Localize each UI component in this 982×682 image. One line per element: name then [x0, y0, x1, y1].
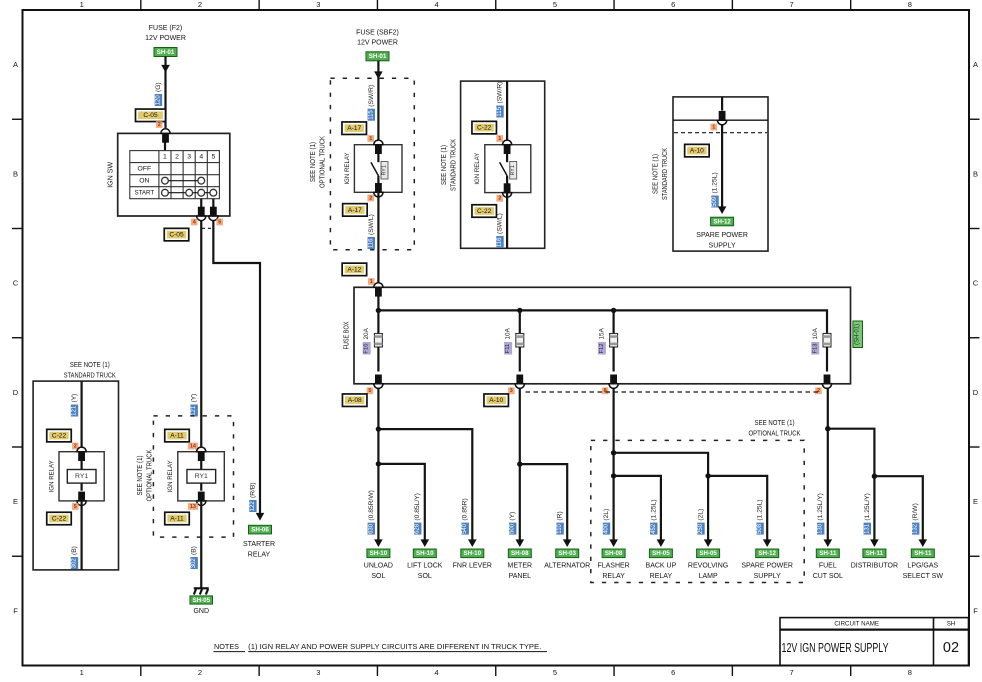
svg-text:15A: 15A	[598, 327, 605, 339]
svg-text:302: 302	[72, 558, 78, 569]
svg-text:3: 3	[316, 668, 320, 677]
fuse box internal bus wire	[377, 287, 379, 310]
svg-text:SPARE POWER: SPARE POWER	[741, 563, 793, 570]
wire from fuse F10 to unload sol	[377, 388, 379, 542]
svg-text:SEE NOTE (1): SEE NOTE (1)	[70, 362, 110, 369]
wire label 452 (1.25L)	[650, 499, 657, 534]
svg-text:RELAY: RELAY	[650, 573, 673, 580]
standard truck enclosure (middle)	[461, 81, 545, 248]
svg-text:F: F	[973, 606, 978, 615]
svg-text:540: 540	[462, 523, 468, 534]
arrow to ALTERNATOR	[563, 539, 572, 547]
title block	[780, 618, 969, 666]
svg-text:12V POWER: 12V POWER	[145, 35, 186, 42]
svg-text:CIRCUIT NAME: CIRCUIT NAME	[834, 620, 879, 627]
wire number 115 (SW/R) standard	[496, 82, 503, 118]
wire number 116 (SW/L)	[368, 214, 375, 249]
svg-text:2: 2	[198, 0, 202, 9]
destination tag SH-12	[711, 217, 734, 226]
arrowhead on SBF2 feed wire	[374, 71, 383, 79]
sheet tag SH-01 (SBF2 feed)	[366, 52, 389, 61]
svg-text:UNLOAD: UNLOAD	[364, 563, 393, 570]
svg-text:GND: GND	[193, 608, 209, 615]
svg-text:F12: F12	[599, 344, 605, 354]
bus junction at F12	[611, 308, 616, 313]
svg-text:2: 2	[369, 195, 372, 201]
pin number 2 left relay top	[72, 443, 79, 450]
svg-text:1: 1	[80, 0, 84, 9]
svg-text:C: C	[13, 279, 19, 288]
wire label 132 (R/W)	[912, 503, 919, 534]
svg-text:SOL: SOL	[371, 573, 385, 580]
svg-text:(SW/R): (SW/R)	[497, 82, 504, 104]
svg-text:SH: SH	[947, 620, 956, 627]
ON row contacts 1-4	[165, 180, 201, 182]
svg-text:SH-12: SH-12	[713, 218, 731, 225]
pin number 2 at IGN SW input	[156, 121, 163, 128]
wire 115 (SW/R) inside standard enclosure	[506, 81, 508, 145]
pin 1 at IGN SW bottom left	[197, 207, 206, 221]
destination tag SH-05	[649, 549, 672, 558]
branch junction to alternator	[517, 461, 522, 466]
svg-text:4: 4	[193, 219, 196, 225]
wire label 500 (Y)	[509, 512, 516, 535]
arrow to DISTRIBUTOR	[870, 539, 879, 547]
pin number at bottom right pin	[216, 219, 223, 226]
svg-text:STARTER: STARTER	[243, 541, 275, 548]
svg-text:IGN SW: IGN SW	[108, 161, 115, 187]
connector label C-22 lower middle	[472, 205, 497, 218]
svg-text:(1.25L/Y): (1.25L/Y)	[817, 493, 824, 521]
sheet tag (SH-01) at fuse box right	[853, 321, 863, 348]
svg-text:(Y): (Y)	[509, 512, 516, 521]
pin 5 at IGN SW bottom right	[209, 207, 218, 221]
svg-text:RY1: RY1	[382, 165, 388, 175]
wire label 250 (2L)	[697, 509, 704, 535]
wire from fuse F13 to fuel cut sol	[827, 388, 829, 542]
pin number 1 middle relay top	[367, 135, 374, 142]
wire branch to revolving lamp	[614, 453, 709, 541]
pin number at fuse box output	[815, 387, 822, 394]
svg-text:7: 7	[789, 0, 793, 9]
pin number 2 middle relay bottom	[367, 195, 374, 202]
wire 122(R/B) from IGN SW pin 5 to starter relay	[213, 221, 260, 514]
svg-text:SUPPLY: SUPPLY	[754, 573, 781, 580]
svg-text:(R/B): (R/B)	[249, 482, 256, 498]
svg-text:F11: F11	[505, 344, 511, 354]
fuse F10 20A	[377, 310, 379, 333]
standard truck enclosure (left)	[33, 381, 118, 570]
sheet tag SH-01 (F2 feed)	[154, 48, 177, 57]
svg-text:628: 628	[415, 523, 421, 534]
arrow to spare power supply (right)	[718, 206, 727, 214]
svg-text:302: 302	[191, 558, 197, 569]
svg-text:F13: F13	[812, 344, 818, 354]
pin number 1 standard relay top	[496, 135, 503, 142]
destination tag SH-06 starter relay	[249, 525, 272, 534]
arrow to SPARE POWER SUPPLY	[763, 539, 772, 547]
svg-text:2: 2	[817, 388, 820, 394]
wire number 509 (1.25L)	[711, 172, 718, 207]
IGN SW contact table	[130, 151, 220, 199]
svg-text:FUSE (SBF2): FUSE (SBF2)	[356, 30, 399, 37]
wire label 540 (0.85R)	[462, 498, 469, 534]
svg-text:A: A	[13, 60, 18, 69]
wire branch to FNR lever	[378, 429, 472, 541]
wire label 508 (1.25L)	[756, 499, 763, 534]
svg-text:4: 4	[435, 0, 439, 9]
svg-text:RY1: RY1	[510, 165, 516, 175]
fuse F12 15A	[612, 310, 614, 333]
ign relay RY1 (optional truck left)	[178, 452, 225, 501]
destination tag SH-10	[461, 549, 484, 558]
pin number 5 left relay bottom	[72, 503, 79, 510]
svg-text:FUSE (F2): FUSE (F2)	[149, 25, 182, 32]
optional truck dashed enclosure (middle)	[330, 78, 414, 249]
pin at fuse box output x=827.0	[822, 375, 831, 389]
svg-text:(SW/L): (SW/L)	[497, 213, 504, 234]
svg-text:13: 13	[190, 504, 196, 510]
fuse F11 10A	[519, 310, 521, 333]
svg-text:(G): (G)	[155, 82, 162, 92]
wire 116 (SW/L) inside standard enclosure	[506, 193, 508, 249]
svg-text:OPTIONAL TRUCK: OPTIONAL TRUCK	[749, 431, 801, 438]
destination tag SH-11	[816, 549, 839, 558]
arrow to BACK UP RELAY	[657, 539, 666, 547]
svg-text:(2L): (2L)	[603, 509, 610, 521]
svg-text:SH-10: SH-10	[370, 550, 388, 557]
connector label A-12	[342, 263, 367, 276]
svg-text:5: 5	[553, 668, 557, 677]
svg-text:3: 3	[316, 0, 320, 9]
svg-text:630: 630	[368, 523, 374, 534]
wire number 120 (G)	[155, 82, 162, 106]
destination tag SH-11	[863, 549, 886, 558]
svg-text:SH-01: SH-01	[157, 49, 175, 56]
svg-text:120: 120	[155, 95, 161, 106]
svg-text:(SW/L): (SW/L)	[368, 214, 375, 235]
arrow to UNLOAD SOL	[374, 539, 383, 547]
svg-text:2: 2	[175, 153, 179, 160]
svg-text:DISTRIBUTOR: DISTRIBUTOR	[851, 563, 898, 570]
connector dashed line under fuse box	[526, 391, 821, 393]
svg-text:A-10: A-10	[690, 148, 704, 155]
svg-text:14: 14	[190, 443, 196, 449]
svg-text:C-22: C-22	[52, 433, 67, 440]
destination tag SH-10	[413, 549, 436, 558]
pin number 14 relay top	[188, 443, 198, 450]
svg-text:20A: 20A	[363, 327, 370, 339]
pin number at fuse box output	[367, 387, 374, 394]
svg-text:10A: 10A	[505, 327, 512, 339]
svg-text:(0.85L/Y): (0.85L/Y)	[414, 493, 421, 521]
optional truck dashed enclosure (left)	[153, 416, 233, 537]
svg-text:500: 500	[510, 523, 516, 534]
bus bar divider inside right enclosure	[673, 119, 768, 121]
svg-text:131: 131	[864, 523, 870, 534]
svg-text:A-12: A-12	[347, 266, 361, 273]
svg-text:A-11: A-11	[170, 515, 184, 522]
svg-text:RY1: RY1	[75, 473, 88, 480]
svg-text:RELAY: RELAY	[248, 552, 271, 559]
svg-text:4: 4	[435, 668, 439, 677]
svg-text:SH-11: SH-11	[914, 550, 932, 557]
bus junction at F10	[376, 308, 381, 313]
destination tag SH-05	[697, 549, 720, 558]
svg-text:BACK UP: BACK UP	[646, 563, 677, 570]
svg-text:PANEL: PANEL	[509, 573, 532, 580]
svg-text:(B): (B)	[191, 546, 198, 555]
wire label 400 (2L)	[603, 509, 610, 535]
wire branch to lift lock sol	[378, 464, 424, 541]
svg-text:1: 1	[370, 279, 373, 285]
svg-text:D: D	[973, 388, 979, 397]
fuse box enclosure	[354, 287, 851, 384]
destination tag SH-11	[911, 549, 934, 558]
svg-text:(2L): (2L)	[698, 509, 705, 521]
connector dashes between bottom pins	[202, 227, 212, 229]
wire 116 (SW/L) down to fuse box	[377, 192, 379, 287]
wire number 116 (SW/L) standard	[496, 213, 503, 248]
svg-text:A-17: A-17	[348, 207, 362, 214]
svg-text:RY1: RY1	[195, 473, 208, 480]
svg-text:122: 122	[250, 501, 256, 512]
ign relay RY1 (left standard truck)	[59, 452, 104, 501]
wire 302(B) inside left enclosure	[80, 501, 82, 570]
connector label C-22 lower left	[47, 512, 72, 525]
svg-text:12V IGN POWER SUPPLY: 12V IGN POWER SUPPLY	[782, 640, 889, 655]
svg-text:C-22: C-22	[52, 515, 67, 522]
wire branch to alternator	[520, 464, 567, 541]
svg-text:508: 508	[757, 523, 763, 534]
svg-text:C: C	[973, 279, 979, 288]
destination tag SH-03	[556, 549, 579, 558]
svg-text:1: 1	[80, 668, 84, 677]
svg-text:(1) IGN RELAY AND POWER SUPPLY: (1) IGN RELAY AND POWER SUPPLY CIRCUITS …	[248, 642, 541, 651]
connector label A-08	[342, 394, 367, 407]
arrow to FNR LEVER	[468, 539, 477, 547]
svg-text:SEE NOTE (1): SEE NOTE (1)	[310, 142, 317, 182]
svg-text:115: 115	[368, 110, 374, 120]
svg-text:2: 2	[74, 443, 77, 449]
svg-text:CUT SOL: CUT SOL	[813, 573, 843, 580]
svg-text:5: 5	[211, 153, 215, 160]
wire number 115 (SW/R) optional	[368, 85, 375, 121]
svg-text:STANDARD TRUCK: STANDARD TRUCK	[64, 373, 116, 380]
arrow to LPG/GAS SELECT SW	[919, 539, 928, 547]
svg-text:SH-06: SH-06	[251, 527, 269, 534]
svg-text:A-17: A-17	[347, 125, 361, 132]
svg-text:SEE NOTE (1): SEE NOTE (1)	[441, 145, 448, 185]
connector label A-11 lower	[165, 512, 190, 525]
wire number 122 (R/B)	[249, 482, 256, 512]
connector label A-11 upper	[165, 429, 190, 442]
wire number 121 (Y) left	[71, 394, 78, 417]
svg-text:400: 400	[604, 523, 610, 534]
svg-text:FLASHER: FLASHER	[597, 563, 629, 570]
svg-text:SH-10: SH-10	[416, 550, 434, 557]
ign relay RY1 (optional truck middle)	[354, 145, 402, 193]
wire label 131 (1.25L/Y)	[864, 493, 871, 535]
standard truck enclosure (right)	[673, 97, 768, 251]
svg-text:116: 116	[497, 237, 503, 247]
svg-text:SH-11: SH-11	[819, 550, 837, 557]
svg-text:SH-08: SH-08	[511, 550, 529, 557]
svg-text:12V POWER: 12V POWER	[357, 40, 398, 47]
pin number 13 relay bottom	[188, 503, 198, 510]
svg-text:5: 5	[74, 504, 77, 510]
destination tag SH-08	[508, 549, 531, 558]
arrow to FLASHER RELAY	[609, 539, 618, 547]
connector label C-05 upper	[136, 109, 166, 122]
svg-text:02: 02	[943, 640, 959, 656]
arrowhead on F2 feed wire	[161, 65, 170, 73]
svg-text:2: 2	[198, 668, 202, 677]
svg-text:ON: ON	[139, 177, 149, 184]
arrow to METER PANEL	[516, 539, 525, 547]
svg-text:OFF: OFF	[138, 165, 152, 172]
svg-text:SH-03: SH-03	[558, 550, 576, 557]
pin number at fuse box output	[508, 387, 515, 394]
wire from fuse F11 to meter panel	[519, 388, 521, 542]
wire branch to distributor	[828, 429, 875, 541]
svg-text:110: 110	[557, 523, 563, 533]
svg-text:SH-01: SH-01	[369, 53, 387, 60]
svg-text:C-22: C-22	[477, 125, 492, 132]
svg-text:5: 5	[368, 388, 371, 394]
svg-text:LIFT LOCK: LIFT LOCK	[407, 563, 443, 570]
svg-text:SPARE POWER: SPARE POWER	[696, 232, 748, 239]
svg-text:IGN RELAY: IGN RELAY	[167, 460, 174, 492]
svg-text:NOTES: NOTES	[214, 642, 239, 651]
ground symbol	[194, 588, 209, 594]
pin at fuse box input	[374, 283, 383, 297]
svg-text:1: 1	[369, 136, 372, 142]
svg-text:1: 1	[163, 153, 167, 160]
svg-text:FNR LEVER: FNR LEVER	[453, 563, 492, 570]
arrow to FUEL CUT SOL	[824, 539, 833, 547]
svg-text:A-08: A-08	[348, 397, 362, 404]
svg-text:4: 4	[199, 153, 203, 160]
pin number 1 at fuse box input	[368, 278, 375, 285]
svg-text:452: 452	[651, 523, 657, 534]
svg-text:SUPPLY: SUPPLY	[709, 243, 736, 250]
svg-text:3: 3	[510, 388, 513, 394]
ground tag SH-05	[190, 596, 213, 604]
svg-text:LPG/GAS: LPG/GAS	[907, 563, 938, 570]
bus junction at F11	[517, 308, 522, 313]
svg-text:OPTIONAL TRUCK: OPTIONAL TRUCK	[319, 136, 326, 188]
svg-text:(1.25L/Y): (1.25L/Y)	[864, 493, 871, 521]
svg-text:SELECT SW: SELECT SW	[903, 573, 944, 580]
svg-text:8: 8	[908, 668, 912, 677]
svg-text:A-11: A-11	[170, 433, 184, 440]
wire label 630 (0.85R/W)	[368, 490, 375, 534]
svg-text:SH-05: SH-05	[192, 597, 210, 604]
svg-text:(R/W): (R/W)	[912, 503, 919, 520]
svg-text:(1.25L): (1.25L)	[757, 499, 764, 520]
svg-text:IGN RELAY: IGN RELAY	[49, 460, 56, 492]
svg-text:1: 1	[498, 136, 501, 142]
svg-text:5: 5	[553, 0, 557, 9]
svg-text:7: 7	[789, 668, 793, 677]
svg-text:10A: 10A	[812, 327, 819, 339]
svg-text:509: 509	[712, 196, 718, 207]
svg-text:(1.25L): (1.25L)	[712, 172, 719, 193]
svg-text:A-10: A-10	[489, 397, 503, 404]
svg-text:8: 8	[604, 388, 607, 394]
svg-text:ALTERNATOR: ALTERNATOR	[544, 563, 590, 570]
svg-text:SH-05: SH-05	[652, 550, 670, 557]
svg-text:C-05: C-05	[169, 232, 184, 239]
svg-text:SH-08: SH-08	[605, 550, 623, 557]
connector label C-22 upper left	[47, 429, 72, 442]
fuse F13 10A	[826, 332, 828, 334]
svg-text:(Y): (Y)	[191, 394, 198, 403]
wire SBF2 feed down to optional IGN relay	[377, 61, 379, 145]
svg-text:121: 121	[72, 405, 78, 416]
connector label A-17 lower	[343, 204, 368, 217]
wire 121(Y) from IGN SW pin 4 down to optional IGN relay	[200, 221, 202, 452]
svg-text:F: F	[13, 606, 18, 615]
svg-text:E: E	[13, 497, 18, 506]
wire 302(B) to ground	[200, 501, 202, 588]
destination tag SH-08	[602, 549, 625, 558]
svg-text:SOL: SOL	[418, 573, 432, 580]
branch junction to revolving lamp	[611, 450, 616, 455]
svg-text:250: 250	[698, 523, 704, 534]
svg-text:F10: F10	[364, 344, 370, 354]
wire branch to spare power supply (bottom)	[708, 476, 767, 541]
svg-text:(0.85R): (0.85R)	[462, 498, 469, 520]
wires from contacts 4 and 5 to bottom pins	[200, 199, 202, 216]
svg-text:130: 130	[818, 523, 824, 534]
pin number at bottom left pin	[191, 219, 198, 226]
wire from fuse F12 to flasher relay	[612, 388, 614, 542]
wire branch to LPG/GAS select switch	[874, 476, 922, 541]
svg-text:2: 2	[158, 122, 161, 128]
connector label C-05 lower	[164, 228, 189, 241]
arrow to starter relay	[256, 513, 265, 521]
wire branch to back up relay	[614, 476, 661, 541]
svg-text:116: 116	[368, 238, 374, 248]
branch junction to LPG/GAS select switch	[872, 474, 877, 479]
svg-text:1: 1	[712, 124, 715, 130]
wire F2 feed down to IGN SW pin 2	[164, 57, 166, 129]
optional truck dashed enclosure (bottom)	[591, 440, 804, 582]
svg-text:3: 3	[187, 153, 191, 160]
svg-text:121: 121	[191, 405, 197, 416]
svg-text:IGN RELAY: IGN RELAY	[474, 152, 481, 184]
svg-text:B: B	[973, 169, 978, 178]
destination tag SH-10	[367, 549, 390, 558]
wire number 121 (Y) optional	[190, 394, 197, 417]
wire number 302 (B) left	[71, 546, 78, 569]
connector label C-22 upper middle	[472, 121, 497, 134]
destination tag SH-12	[756, 549, 779, 558]
svg-text:METER: METER	[508, 563, 533, 570]
svg-text:(R): (R)	[557, 511, 564, 520]
svg-text:STANDARD TRUCK: STANDARD TRUCK	[662, 148, 669, 200]
svg-text:E: E	[973, 497, 978, 506]
svg-text:SH-05: SH-05	[699, 550, 717, 557]
wire number 302 (B)	[190, 546, 197, 569]
svg-text:6: 6	[671, 668, 675, 677]
svg-text:STANDARD TRUCK: STANDARD TRUCK	[450, 139, 457, 191]
svg-text:C-22: C-22	[477, 208, 492, 215]
svg-text:SH-12: SH-12	[758, 550, 776, 557]
connector label A-10 (right enclosure)	[685, 144, 710, 157]
